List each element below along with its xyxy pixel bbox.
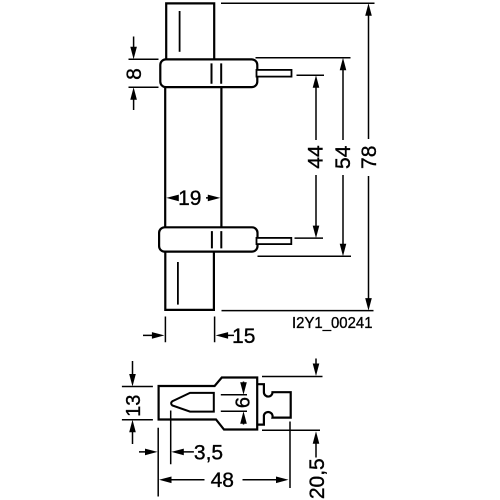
clip side-view body outline xyxy=(159,378,258,430)
dim 8 arrow tails xyxy=(133,37,135,111)
dim 20,5 bottom extension xyxy=(262,429,320,431)
bottom pin xyxy=(257,238,292,244)
dim 6 bottom arrowhead xyxy=(240,411,247,424)
tube top highlight line xyxy=(179,11,181,52)
dim 19 arrow tails xyxy=(172,197,215,199)
bottom clip body xyxy=(159,227,257,251)
contact slot bullet xyxy=(171,393,214,412)
dim 48 left arrowhead xyxy=(159,477,172,484)
dim 8 bottom arrowhead xyxy=(130,87,137,100)
svg-text:20,5: 20,5 xyxy=(306,458,329,499)
dim 3,5 left arrowhead xyxy=(145,449,158,456)
dim 13 extension lines xyxy=(122,387,153,420)
dim 15 arrow tails xyxy=(143,334,234,336)
top clip body xyxy=(160,59,257,87)
svg-text:19: 19 xyxy=(178,187,201,210)
svg-text:8: 8 xyxy=(123,68,146,80)
dimension texts xyxy=(123,68,381,499)
svg-text:44: 44 xyxy=(305,145,328,169)
dim 6 extension lines xyxy=(221,395,247,411)
fuse tube middle section xyxy=(165,87,221,227)
fuse tube bottom section xyxy=(165,252,214,310)
dim 3,5 arrow tails xyxy=(139,451,194,453)
dim 48 right arrowhead xyxy=(276,477,289,484)
dim 78 bottom arrowhead xyxy=(365,298,372,311)
dim 54 top arrowhead xyxy=(340,58,347,70)
dim 15 right arrowhead xyxy=(216,332,229,339)
dim 78 line xyxy=(368,14,370,300)
bottom clip slot lines xyxy=(212,231,221,248)
dim 20,5 bottom arrowhead xyxy=(313,431,320,444)
snap tab profile xyxy=(257,384,291,424)
dim 13 bottom arrowhead xyxy=(129,420,136,433)
dim 44 top extension xyxy=(297,74,325,76)
svg-text:78: 78 xyxy=(358,146,381,169)
svg-text:48: 48 xyxy=(211,469,234,492)
arrowheads xyxy=(129,3,372,483)
dim 6 arrow tails xyxy=(243,382,245,425)
svg-text:54: 54 xyxy=(332,145,355,169)
svg-text:I2Y1_00241: I2Y1_00241 xyxy=(292,315,373,332)
dim 3,5 right arrowhead xyxy=(171,449,184,456)
dim 54 bottom extension xyxy=(258,255,352,257)
dim 19 right arrowhead xyxy=(208,195,221,202)
svg-text:6: 6 xyxy=(233,397,255,408)
dim 8 extension lines xyxy=(129,59,159,87)
dim 54 line xyxy=(342,69,344,246)
dim 78 top extension xyxy=(221,2,375,4)
dim 19 left arrowhead xyxy=(166,195,179,202)
top pin xyxy=(257,70,292,77)
top clip slot lines xyxy=(212,63,222,83)
dim 48 right extension xyxy=(289,422,291,489)
dim 44 bottom arrowhead xyxy=(313,226,320,239)
svg-text:13: 13 xyxy=(123,395,145,417)
dim 20,5 arrow tails xyxy=(315,359,317,458)
tube bottom highlight line xyxy=(177,262,179,305)
dim 13 top arrowhead xyxy=(129,374,136,387)
dim 78 bottom extension xyxy=(222,310,374,312)
dim 15 extension lines xyxy=(165,317,214,343)
dim 20,5 top extension xyxy=(262,376,323,378)
dim 20,5 top arrowhead xyxy=(313,364,320,377)
fuse tube top section xyxy=(166,3,214,59)
dim 13 arrow tails xyxy=(132,361,134,444)
svg-text:15: 15 xyxy=(232,325,255,348)
dim 15 left arrowhead xyxy=(152,332,165,339)
svg-text:3,5: 3,5 xyxy=(194,442,223,465)
dim 44 bottom extension xyxy=(295,237,324,239)
dim 48 line xyxy=(170,479,278,481)
dim 54 top extension xyxy=(256,57,351,59)
dim 54 bottom arrowhead xyxy=(340,244,347,257)
dim 6 top arrowhead xyxy=(240,382,247,395)
dim 78 top arrowhead xyxy=(365,3,372,16)
dim 44 top arrowhead xyxy=(313,75,320,88)
dim 8 top arrowhead xyxy=(130,47,137,60)
dim 3,5 extension lines xyxy=(158,411,171,497)
dim 44 line xyxy=(315,86,317,228)
